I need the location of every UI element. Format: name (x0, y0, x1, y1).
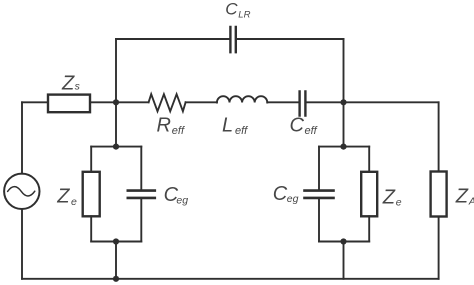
svg-text:L: L (222, 114, 233, 136)
svg-text:eg: eg (176, 194, 188, 206)
wire (116, 38, 229, 40)
svg-text:C: C (273, 183, 288, 205)
wire (186, 101, 217, 103)
wire (140, 199, 142, 241)
wire (90, 216, 92, 241)
svg-text:Z: Z (56, 186, 70, 208)
node bottom bus (113, 276, 119, 282)
wire (319, 146, 369, 148)
svg-text:e: e (71, 196, 77, 208)
impedance ZA (431, 172, 447, 217)
wire (91, 146, 141, 148)
svg-text:C: C (225, 0, 238, 18)
wire (307, 101, 439, 103)
wire (343, 39, 345, 147)
wire (22, 278, 439, 280)
svg-text:s: s (75, 81, 81, 93)
node left combo bottom (113, 238, 119, 244)
svg-text:eff: eff (172, 125, 185, 137)
svg-text:eff: eff (235, 125, 248, 137)
node right combo bottom (340, 238, 346, 244)
wire (22, 101, 48, 103)
wire (21, 102, 23, 173)
svg-text:R: R (157, 114, 171, 136)
svg-text:LR: LR (238, 10, 250, 21)
wire (140, 147, 142, 190)
svg-text:eg: eg (287, 193, 299, 205)
capacitor Ceff (300, 91, 306, 115)
capacitor CLR (230, 27, 235, 52)
svg-text:Z: Z (455, 185, 469, 207)
wire (115, 39, 117, 102)
impedance Ze left (83, 172, 100, 217)
wire (115, 242, 117, 279)
svg-text:C: C (290, 114, 305, 136)
wire (90, 101, 149, 103)
wire (319, 241, 369, 243)
capacitor Ceg left (128, 191, 155, 198)
wire (368, 216, 370, 241)
inductor Leff (217, 96, 267, 102)
wire (267, 101, 298, 103)
wire (318, 199, 320, 241)
wire (91, 241, 141, 243)
node right combo top (340, 144, 346, 150)
wire (438, 217, 440, 279)
wire (318, 147, 320, 190)
wire (115, 102, 117, 146)
svg-text:A: A (468, 196, 474, 208)
svg-text:e: e (396, 197, 402, 209)
wire (21, 209, 23, 279)
wire (237, 38, 344, 40)
node left combo top (113, 144, 119, 150)
node main rail left (113, 99, 119, 105)
svg-text:Z: Z (382, 187, 396, 209)
impedance Zs (48, 95, 90, 113)
wire (368, 147, 370, 172)
wire (90, 147, 92, 172)
node main rail right (340, 99, 346, 105)
svg-text:Z: Z (61, 72, 75, 94)
capacitor Ceg right (305, 191, 334, 198)
wire (438, 102, 440, 171)
svg-text:eff: eff (305, 125, 318, 137)
impedance Ze right (361, 172, 377, 217)
source V1 (4, 174, 39, 209)
wire (343, 242, 345, 279)
resistor Reff (149, 94, 186, 111)
